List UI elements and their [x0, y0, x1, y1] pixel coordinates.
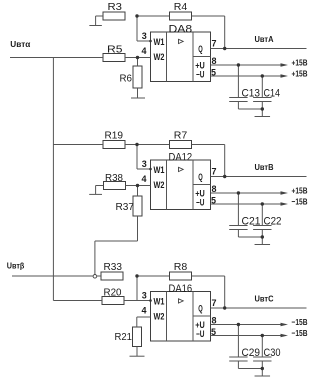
svg-text:R3: R3: [108, 2, 123, 13]
svg-text:8: 8: [212, 56, 217, 66]
svg-text:R5: R5: [107, 45, 123, 56]
svg-text:7: 7: [212, 167, 217, 177]
svg-text:3: 3: [142, 291, 147, 301]
svg-text:4: 4: [141, 174, 146, 184]
svg-text:W2: W2: [154, 52, 165, 63]
svg-text:R38: R38: [105, 173, 123, 184]
svg-text:UвтC: UвтC: [255, 295, 274, 304]
svg-text:R19: R19: [105, 131, 124, 142]
svg-text:Q: Q: [198, 172, 203, 182]
svg-text:C30: C30: [264, 347, 281, 359]
svg-text:7: 7: [212, 298, 217, 308]
svg-text:−15В: −15В: [292, 317, 308, 327]
svg-text:8: 8: [212, 316, 217, 326]
svg-text:−U: −U: [196, 70, 205, 80]
svg-text:3: 3: [142, 31, 147, 41]
svg-text:8: 8: [212, 184, 217, 194]
svg-text:W1: W1: [154, 37, 166, 48]
svg-text:R7: R7: [174, 131, 188, 142]
svg-text:5: 5: [211, 327, 216, 337]
svg-text:R4: R4: [174, 2, 188, 13]
svg-text:W2: W2: [154, 180, 165, 191]
svg-text:+15В: +15В: [292, 185, 308, 195]
svg-text:−15В: −15В: [292, 328, 308, 338]
svg-text:3: 3: [142, 159, 147, 169]
svg-text:C29: C29: [242, 347, 261, 359]
svg-text:W2: W2: [154, 312, 165, 323]
svg-text:Q: Q: [198, 44, 203, 54]
svg-text:4: 4: [141, 46, 146, 56]
svg-text:UвтA: UвтA: [255, 35, 274, 44]
svg-text:DA16: DA16: [169, 283, 193, 295]
svg-text:DA8: DA8: [169, 23, 193, 35]
svg-text:Uвтα: Uвтα: [10, 40, 30, 49]
svg-text:R20: R20: [104, 287, 122, 298]
svg-text:DA12: DA12: [169, 151, 193, 163]
svg-text:C21: C21: [242, 216, 261, 228]
svg-text:W1: W1: [154, 165, 166, 176]
svg-text:R6: R6: [120, 74, 133, 85]
svg-text:−U: −U: [196, 198, 205, 208]
svg-text:W1: W1: [154, 297, 166, 308]
svg-text:7: 7: [212, 39, 217, 49]
svg-text:4: 4: [141, 306, 146, 316]
svg-text:5: 5: [211, 196, 216, 206]
svg-text:Q: Q: [198, 304, 203, 314]
svg-text:+15В: +15В: [292, 57, 308, 67]
svg-text:R8: R8: [174, 262, 188, 273]
svg-text:C14: C14: [264, 88, 281, 100]
svg-text:+15В: +15В: [292, 68, 308, 78]
svg-text:5: 5: [211, 68, 216, 78]
svg-text:C13: C13: [242, 88, 261, 100]
svg-text:−15В: −15В: [292, 196, 308, 206]
svg-text:C22: C22: [264, 216, 282, 228]
svg-text:R21: R21: [115, 332, 133, 343]
svg-text:−U: −U: [196, 329, 205, 339]
svg-text:UвтB: UвтB: [255, 163, 274, 172]
svg-text:R37: R37: [116, 202, 135, 213]
svg-text:Uвтβ: Uвтβ: [7, 262, 25, 271]
svg-text:R33: R33: [104, 262, 123, 273]
